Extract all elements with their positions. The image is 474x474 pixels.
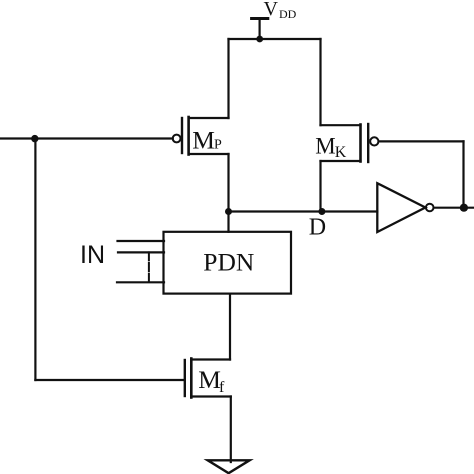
svg-text:D: D [309, 214, 326, 240]
svg-text:P: P [214, 138, 222, 153]
svg-text:M: M [315, 133, 335, 158]
svg-text:IN: IN [80, 241, 105, 269]
svg-text:V: V [264, 0, 279, 20]
svg-text:PDN: PDN [203, 248, 254, 277]
svg-text:M: M [198, 365, 221, 394]
svg-text:f: f [219, 379, 225, 396]
svg-text:DD: DD [279, 7, 297, 21]
svg-text:M: M [192, 126, 215, 155]
svg-text:K: K [335, 144, 347, 161]
